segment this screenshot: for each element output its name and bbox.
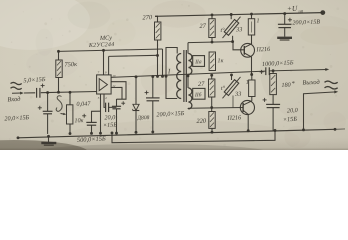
svg-text:12: 12 [112, 84, 116, 88]
svg-text:ип: ип [298, 10, 304, 15]
svg-text:П216: П216 [255, 46, 271, 54]
svg-text:270: 270 [142, 14, 153, 21]
svg-text:20,0: 20,0 [104, 114, 116, 121]
svg-text:7: 7 [98, 71, 100, 75]
svg-text:750к: 750к [64, 61, 78, 69]
svg-text:1: 1 [246, 79, 249, 86]
svg-text:К2УС244: К2УС244 [88, 41, 115, 49]
svg-text:×15Б: ×15Б [283, 116, 298, 124]
svg-text:Вход: Вход [7, 96, 21, 104]
svg-text:1: 1 [256, 17, 259, 24]
svg-text:33: 33 [234, 91, 242, 98]
svg-text:МСу: МСу [99, 35, 113, 43]
svg-text:×15Б: ×15Б [103, 121, 118, 129]
svg-text:200,0×15Б: 200,0×15Б [156, 110, 185, 118]
svg-text:П216: П216 [226, 114, 242, 122]
svg-text:9: 9 [105, 71, 107, 75]
svg-text:20,0: 20,0 [287, 107, 299, 115]
svg-text:Выход: Выход [302, 79, 320, 87]
svg-text:20,0×15Б: 20,0×15Б [4, 114, 30, 122]
svg-text:220: 220 [196, 118, 207, 125]
svg-text:t°: t° [221, 85, 226, 92]
svg-text:+U: +U [287, 4, 298, 13]
svg-text:10к: 10к [74, 117, 83, 124]
svg-text:27: 27 [198, 81, 205, 88]
svg-text:t°: t° [220, 27, 225, 34]
svg-text:IIб: IIб [194, 91, 202, 98]
svg-text:200,0×15В: 200,0×15В [292, 20, 320, 27]
svg-text:IIа: IIа [194, 59, 202, 65]
svg-text:Д808: Д808 [136, 115, 149, 122]
svg-text:27: 27 [199, 23, 206, 30]
svg-text:0,047: 0,047 [76, 100, 91, 108]
svg-text:1к: 1к [217, 57, 223, 64]
svg-text:10: 10 [112, 74, 116, 78]
svg-text:180: 180 [281, 82, 291, 89]
svg-text:33: 33 [235, 26, 243, 33]
